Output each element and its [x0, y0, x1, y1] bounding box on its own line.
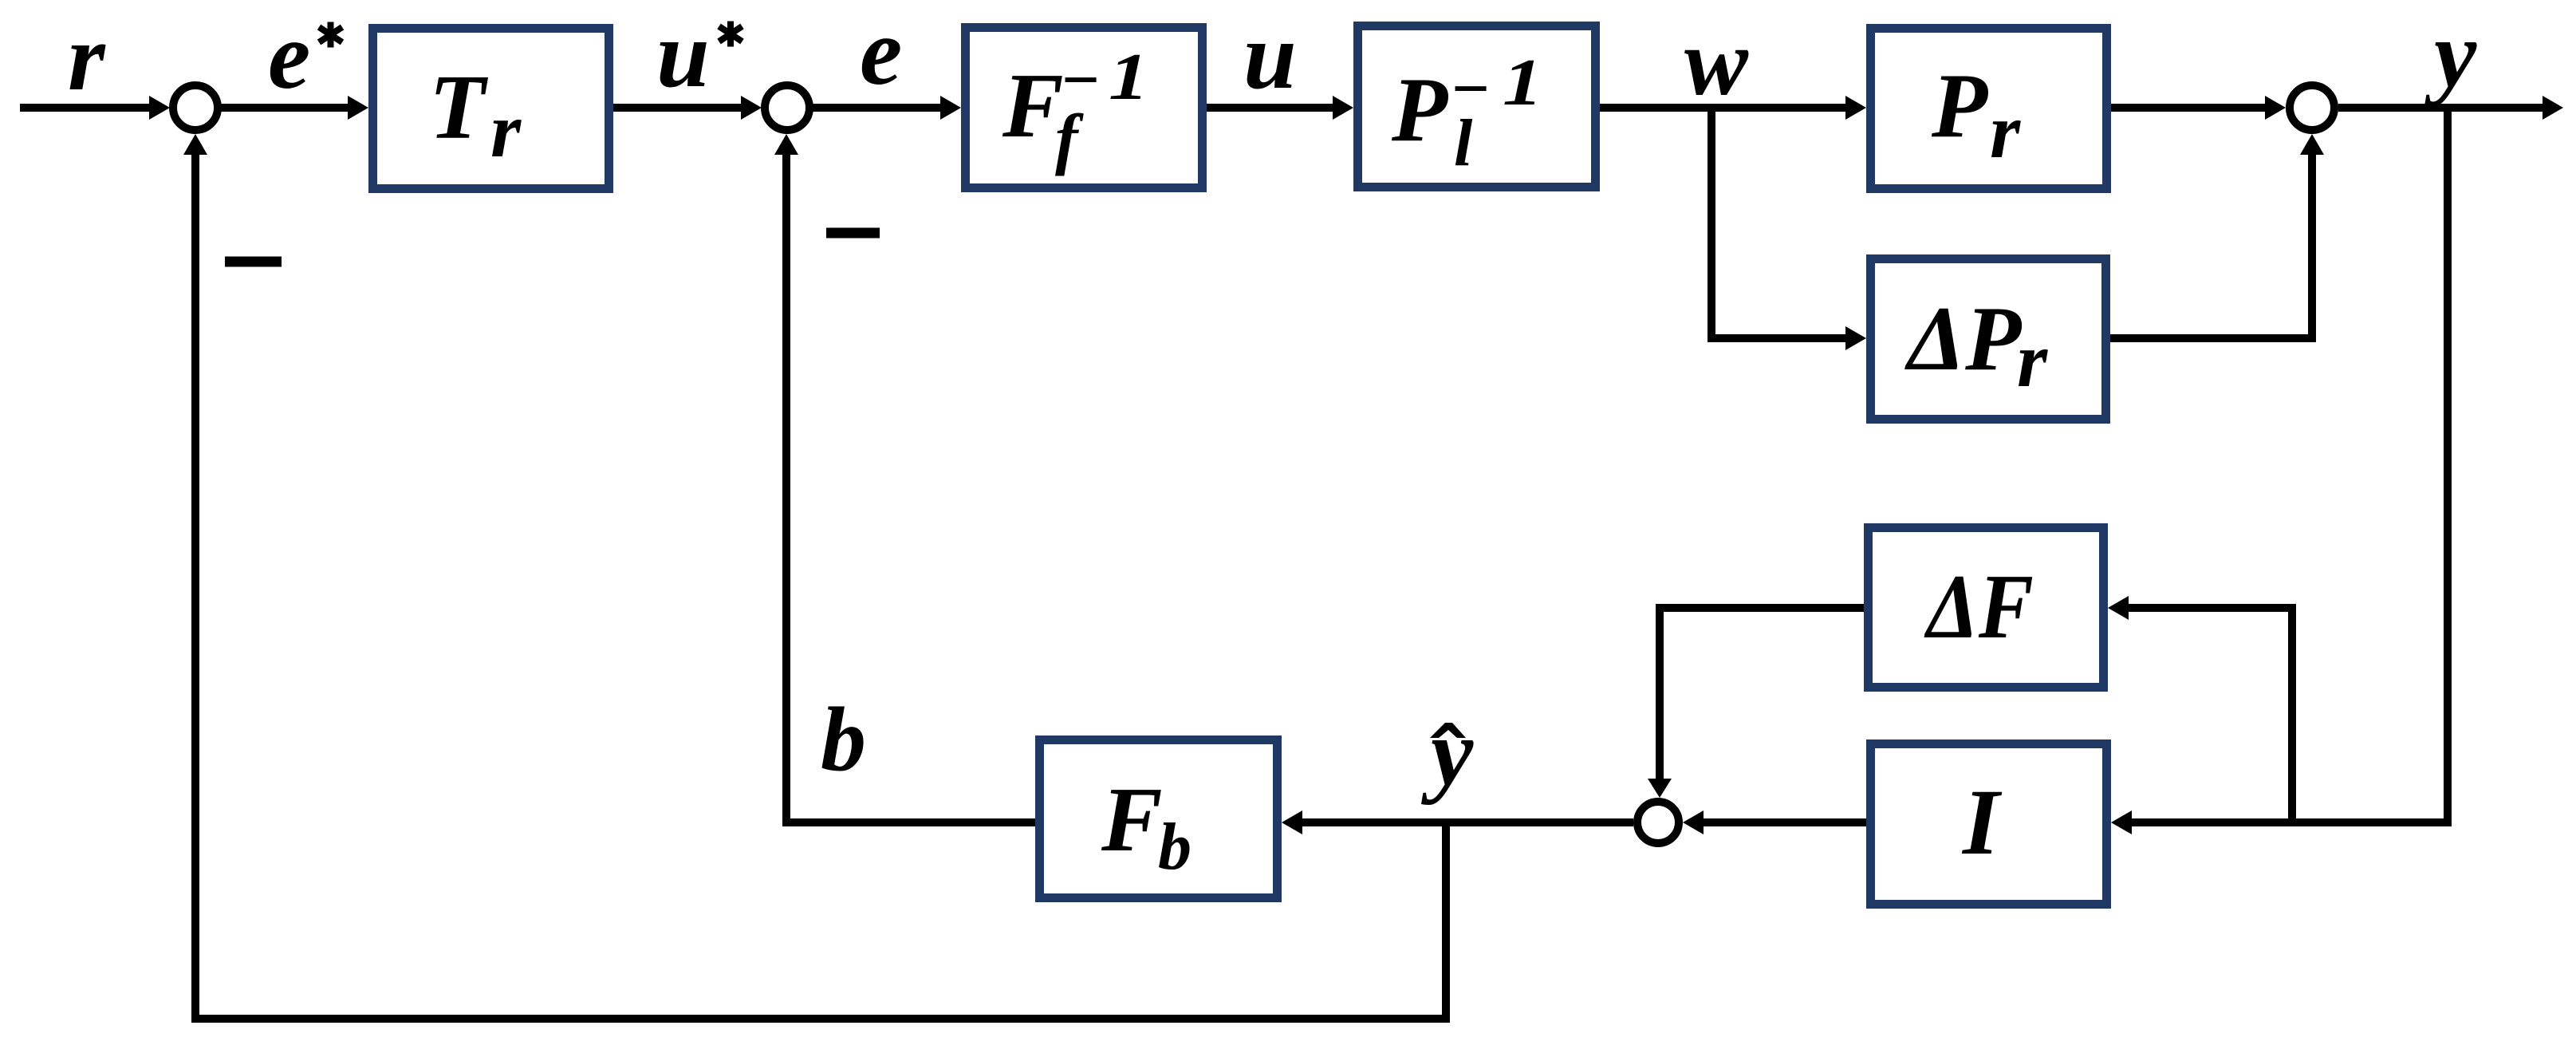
wire: Fb output b feedback up into S2: [774, 134, 1035, 822]
wire: S3 to y output: [2338, 96, 2563, 120]
svg-text:1: 1: [1109, 40, 1148, 114]
svg-text:r: r: [1990, 89, 2021, 175]
wire: I output into S4: [1683, 810, 1866, 834]
svg-text:−: −: [1450, 52, 1491, 126]
wire: r input into summing junction S1: [20, 96, 170, 120]
svg-text:T: T: [429, 57, 489, 158]
wire: branch up into block dF: [2108, 596, 2292, 822]
svg-text:w: w: [1684, 9, 1749, 115]
node label e*: [268, 2, 342, 108]
wire: S1 to block Tr: [221, 96, 368, 120]
block Pr: [1871, 29, 2107, 189]
minus sign at S1: [225, 257, 282, 267]
svg-text:b: b: [1158, 810, 1191, 884]
svg-text:y: y: [2424, 1, 2477, 107]
summing junction S3: [2290, 85, 2334, 130]
summing junction S1: [173, 85, 218, 130]
block Pl^-1: [1358, 26, 1596, 187]
svg-text:P: P: [1931, 55, 1988, 156]
wire: dPr output up into S3: [2110, 134, 2324, 338]
block dF: [1869, 528, 2104, 688]
wire: dF output down into summing junction S4: [1648, 608, 1864, 798]
svg-text:e: e: [268, 2, 310, 108]
svg-text:r: r: [490, 88, 522, 174]
svg-text:b: b: [821, 688, 866, 790]
svg-text:r: r: [68, 4, 106, 110]
svg-text:1: 1: [1503, 45, 1542, 120]
svg-text:P: P: [1391, 59, 1448, 160]
svg-text:I: I: [1961, 770, 2003, 874]
wire: Tr to summing junction S2: [613, 96, 762, 120]
node label u*: [656, 1, 742, 107]
svg-text:F: F: [1101, 769, 1163, 870]
block dPr: [1871, 259, 2106, 420]
block Tr: [373, 29, 609, 189]
wire: Pr to summing junction S3: [2111, 96, 2286, 120]
svg-text:e: e: [860, 0, 902, 105]
wire: w branch down to dPr: [1711, 108, 1866, 350]
svg-text:−: −: [1060, 43, 1101, 117]
svg-text:ΔF: ΔF: [1924, 556, 2034, 657]
svg-text:r: r: [2017, 317, 2048, 404]
wire: S2 to block Ff: [813, 96, 961, 120]
summing junction S4: [1637, 802, 1679, 843]
minus sign at S2: [826, 228, 880, 239]
wire: Ff to block Pl: [1207, 96, 1353, 120]
svg-text:ΔP: ΔP: [1904, 288, 2022, 389]
node label yhat: [1420, 699, 1474, 805]
wire: Pl to block Pr with node w branch: [1600, 96, 1866, 120]
block I: [1871, 744, 2107, 905]
summing junction S2: [765, 85, 809, 130]
block Fb: [1040, 740, 1278, 898]
svg-text:y: y: [1420, 699, 1474, 805]
wire: y branch down and left into block I: [2111, 108, 2448, 834]
wire: yhat branch down along bottom back up into S1: [183, 134, 1446, 1019]
wire: S4 to block Fb with yhat branch: [1282, 810, 1633, 834]
svg-text:u: u: [1243, 2, 1297, 108]
block Ff^-1: [966, 28, 1203, 188]
svg-text:u: u: [656, 1, 710, 107]
